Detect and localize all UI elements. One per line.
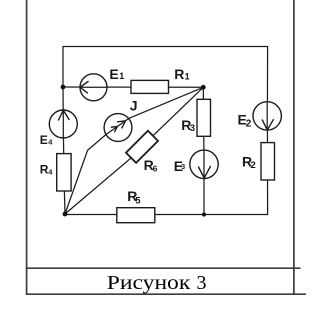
svg-text:3: 3 bbox=[181, 164, 185, 171]
svg-text:6: 6 bbox=[153, 163, 158, 173]
svg-text:E: E bbox=[40, 133, 48, 147]
svg-text:2: 2 bbox=[246, 118, 252, 129]
svg-text:E: E bbox=[109, 66, 118, 82]
svg-text:1: 1 bbox=[185, 71, 190, 81]
svg-text:3: 3 bbox=[197, 272, 207, 294]
svg-text:J: J bbox=[130, 98, 138, 114]
svg-text:5: 5 bbox=[135, 196, 141, 207]
svg-text:1: 1 bbox=[119, 71, 124, 81]
svg-text:3: 3 bbox=[190, 123, 195, 134]
svg-text:Рисунок: Рисунок bbox=[107, 272, 191, 294]
svg-text:2: 2 bbox=[251, 160, 256, 171]
svg-text:R: R bbox=[174, 66, 184, 82]
